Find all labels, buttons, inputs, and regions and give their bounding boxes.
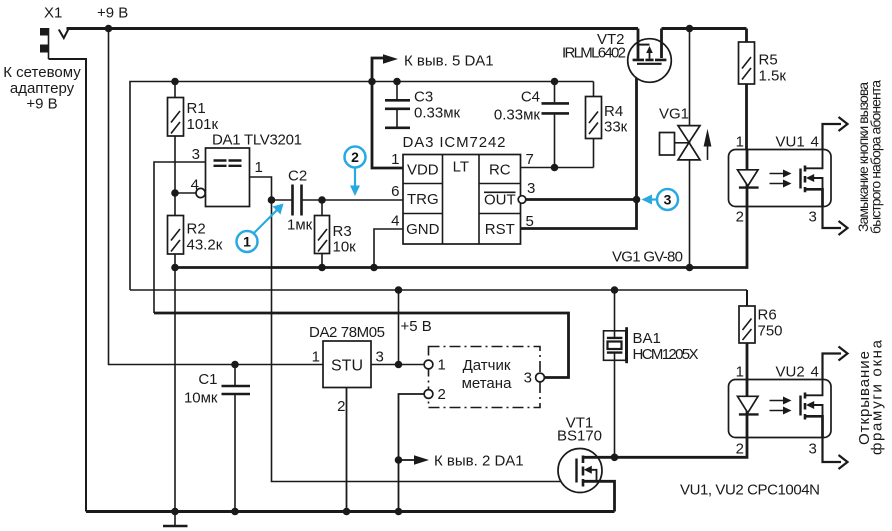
wire DA3 RST to gate line xyxy=(521,64,637,229)
wire VT2 drain to R5 xyxy=(662,27,747,30)
svg-text:RST: RST xyxy=(485,221,515,238)
svg-text:1: 1 xyxy=(391,151,399,168)
methane sensor box xyxy=(429,347,541,408)
wire sensor signal line to DA1 pin3 xyxy=(154,313,569,378)
node C4 bottom junction xyxy=(551,164,559,172)
wire VT1 drain to VU2 pin 2 xyxy=(615,438,748,458)
wire VU2 pin 3 output arrow xyxy=(823,438,842,463)
wire DA3 GND pin to ground bus xyxy=(374,229,403,268)
svg-text:R2: R2 xyxy=(187,221,206,238)
resistor R4 xyxy=(586,82,602,168)
node ground bus junctions xyxy=(171,264,179,272)
wire К выв. 2 DA1 arrow xyxy=(399,459,415,461)
svg-text:1: 1 xyxy=(255,159,263,176)
svg-text:2: 2 xyxy=(337,398,345,415)
ground xyxy=(163,512,188,527)
svg-text:R3: R3 xyxy=(333,223,352,240)
transistor VT1 xyxy=(558,449,615,512)
node 3 callout xyxy=(642,189,679,210)
svg-text:R4: R4 xyxy=(604,103,623,120)
svg-text:IRLML6402: IRLML6402 xyxy=(562,45,626,62)
svg-text:1.5к: 1.5к xyxy=(759,68,787,85)
wire +5V bus y=290 xyxy=(130,289,747,291)
wire VU2 pin 4 output arrow xyxy=(823,354,842,380)
svg-text:101к: 101к xyxy=(187,116,219,133)
ground bar C3 xyxy=(385,127,410,130)
svg-text:3: 3 xyxy=(524,370,532,387)
svg-text:VU2: VU2 xyxy=(776,364,805,381)
wire VDD feed К выв. 5 DA1 xyxy=(372,58,403,168)
timer DA3 xyxy=(403,155,521,245)
node +5V bus junctions xyxy=(395,286,403,294)
wire X1 to bottom ground rail xyxy=(49,59,87,512)
wire bottom ground rail xyxy=(86,510,615,513)
node К выв. 2 junction xyxy=(395,456,403,464)
node +5V output junction xyxy=(395,361,403,369)
svg-text:+9 В: +9 В xyxy=(26,96,57,113)
wire DA1 pin 3 input xyxy=(154,162,206,313)
svg-text:BS170: BS170 xyxy=(557,428,602,445)
wire +9V top rail xyxy=(67,27,639,30)
capacitor C1 xyxy=(222,365,251,512)
resistor R5 xyxy=(739,29,755,150)
svg-text:3: 3 xyxy=(376,349,384,366)
svg-text:К сетевому: К сетевому xyxy=(3,64,81,81)
svg-text:2: 2 xyxy=(438,386,446,403)
svg-text:10к: 10к xyxy=(333,239,357,256)
svg-text:R5: R5 xyxy=(759,52,778,69)
svg-text:1мк: 1мк xyxy=(287,217,313,234)
node VT1 drain junction xyxy=(611,454,619,462)
svg-text:VU1: VU1 xyxy=(776,134,805,151)
svg-text:C2: C2 xyxy=(288,168,307,185)
svg-text:VG1 GV-80: VG1 GV-80 xyxy=(612,249,683,266)
capacitor C4 xyxy=(542,82,570,168)
wire ground column x=175 xyxy=(174,268,176,512)
svg-text:3: 3 xyxy=(809,209,817,226)
svg-text:X1: X1 xyxy=(44,5,62,22)
resistor R6 xyxy=(739,290,755,380)
svg-text:HCM1205X: HCM1205X xyxy=(633,346,699,363)
node C2 input junction xyxy=(268,196,276,204)
svg-text:4: 4 xyxy=(391,213,399,230)
svg-text:43.2к: 43.2к xyxy=(187,237,223,254)
svg-text:4: 4 xyxy=(811,134,819,151)
regulator DA2 xyxy=(323,341,371,388)
svg-text:4: 4 xyxy=(811,364,819,381)
svg-text:3: 3 xyxy=(527,180,535,197)
optocoupler VU2 xyxy=(729,380,832,438)
svg-text:4: 4 xyxy=(191,177,199,194)
resistor R3 xyxy=(315,200,330,268)
svg-text:0.33мк: 0.33мк xyxy=(414,105,461,122)
wire DA2 pin 3 output xyxy=(371,364,424,366)
wire +9V feed down to DA2 input xyxy=(109,29,324,365)
wire DA3 OUT to VT2 gate xyxy=(526,198,637,201)
svg-text:7: 7 xyxy=(526,151,534,168)
wire DA1 pin 1 output xyxy=(250,177,272,200)
wire VG1 column xyxy=(689,29,691,268)
svg-text:1: 1 xyxy=(736,134,744,151)
svg-text:+9 В: +9 В xyxy=(97,5,128,22)
svg-text:VU1, VU2 CPC1004N: VU1, VU2 CPC1004N xyxy=(680,482,820,499)
svg-text:1: 1 xyxy=(736,364,744,381)
svg-text:C4: C4 xyxy=(521,89,540,106)
wire VU1 pin 3 output arrow xyxy=(823,207,842,229)
svg-text:33к: 33к xyxy=(604,119,628,136)
svg-text:1: 1 xyxy=(438,357,446,374)
svg-text:3: 3 xyxy=(809,441,817,458)
svg-text:быстрого набора абонента: быстрого набора абонента xyxy=(868,80,884,234)
resistor R1 xyxy=(168,82,184,194)
svg-text:адаптеру: адаптеру xyxy=(10,80,75,97)
svg-text:DA3 ICM7242: DA3 ICM7242 xyxy=(403,134,506,151)
valve VG1 xyxy=(660,126,712,160)
wire DA2 pin 2 to ground rail xyxy=(346,388,348,512)
node C1 top junction xyxy=(231,361,239,369)
transistor VT2 xyxy=(628,29,672,83)
svg-text:3: 3 xyxy=(664,192,672,208)
svg-text:TRG: TRG xyxy=(407,191,439,208)
terminal 1 sensor xyxy=(424,360,433,369)
svg-text:2: 2 xyxy=(736,209,744,226)
node DA1 pin4 junction xyxy=(171,189,179,197)
node R3 top junction xyxy=(318,196,326,204)
wire +5V up to bus xyxy=(398,290,400,365)
svg-text:VDD: VDD xyxy=(407,161,439,178)
svg-text:0.33мк: 0.33мк xyxy=(494,107,541,124)
svg-text:BA1: BA1 xyxy=(633,330,661,347)
svg-text:3: 3 xyxy=(192,146,200,163)
svg-text:LT: LT xyxy=(453,159,469,176)
comparator DA1 xyxy=(206,148,250,207)
svg-text:К выв. 5 DA1: К выв. 5 DA1 xyxy=(404,53,494,70)
svg-text:STU: STU xyxy=(331,358,363,375)
terminal 3 sensor xyxy=(536,373,545,382)
node VG1 rail junction xyxy=(686,25,694,33)
connector X1 xyxy=(40,28,69,59)
svg-text:R6: R6 xyxy=(758,307,777,324)
svg-text:К выв. 2 DA1: К выв. 2 DA1 xyxy=(434,453,524,470)
wire sensor terminal 2 to ground rail xyxy=(399,394,425,512)
wire DA1 pin 4 input with inversion bubble xyxy=(175,192,196,194)
svg-text:C1: C1 xyxy=(198,371,217,388)
node 2 callout xyxy=(345,147,366,197)
svg-text:1: 1 xyxy=(243,234,251,250)
svg-text:VG1: VG1 xyxy=(659,106,689,123)
node +9V rail junction xyxy=(105,25,113,33)
svg-text:6: 6 xyxy=(391,183,399,200)
wire VU1 pin 4 output arrow xyxy=(823,124,842,150)
svg-text:C3: C3 xyxy=(414,89,433,106)
svg-text:метана: метана xyxy=(462,375,512,392)
capacitor C2 xyxy=(272,185,404,216)
svg-text:Датчик: Датчик xyxy=(463,357,511,374)
svg-text:2: 2 xyxy=(736,441,744,458)
svg-text:DA1 TLV3201: DA1 TLV3201 xyxy=(212,132,302,149)
svg-text:+5 В: +5 В xyxy=(401,318,432,335)
optocoupler VU1 xyxy=(729,150,832,207)
svg-text:R1: R1 xyxy=(187,100,206,117)
svg-text:2: 2 xyxy=(351,149,359,165)
svg-text:фрамуги окна: фрамуги окна xyxy=(869,339,886,455)
terminal 2 sensor xyxy=(424,390,433,399)
node 1 callout xyxy=(237,204,284,253)
wire ground bus y=267.5 to VU1 pin 2 xyxy=(175,207,747,268)
svg-text:DA2 78M05: DA2 78M05 xyxy=(309,324,385,341)
wire DA1 output to VT1 gate xyxy=(272,200,577,482)
wire RC pin 7 xyxy=(521,167,594,169)
wire +5V VDD bus (left box and y=81.5 line) xyxy=(130,82,594,291)
svg-text:750: 750 xyxy=(758,323,783,340)
svg-text:10мк: 10мк xyxy=(184,390,218,407)
node OUT gate junction xyxy=(633,196,641,204)
node VDD bus junctions xyxy=(171,78,179,86)
svg-text:OUT: OUT xyxy=(484,192,516,209)
capacitor C3 xyxy=(385,82,410,127)
svg-text:GND: GND xyxy=(406,221,440,238)
svg-text:1: 1 xyxy=(312,349,320,366)
buzzer BA1 xyxy=(604,290,627,457)
resistor R2 xyxy=(168,193,184,268)
node ground rail junctions xyxy=(171,508,179,516)
svg-text:RC: RC xyxy=(489,161,511,178)
